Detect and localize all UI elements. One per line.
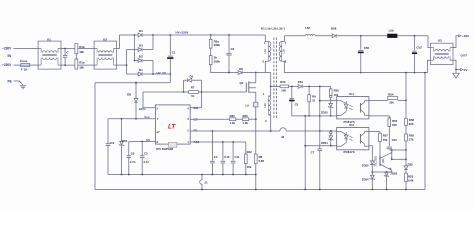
wire aux feed	[270, 86, 280, 88]
wire collector link	[391, 150, 393, 160]
IC5 pin number 4	[187, 107, 189, 110]
IC5 pin number 1	[187, 141, 189, 144]
IC5 pin number 8	[157, 141, 159, 144]
pin label ADJ	[194, 140, 200, 144]
svg-text:200k: 200k	[214, 60, 221, 64]
pin 1 primary	[264, 41, 266, 45]
diode D4	[135, 29, 154, 37]
diode D55	[404, 159, 413, 173]
svg-text:IN: IN	[8, 54, 12, 58]
wire HV_0V to C1	[153, 73, 171, 75]
svg-text:C10: C10	[224, 155, 230, 159]
wire aux bottom hook	[268, 115, 270, 131]
wire bottom rail	[95, 189, 425, 191]
svg-text:4.7n: 4.7n	[130, 160, 136, 164]
IC5 pin number 7	[157, 118, 159, 121]
net label HV+325V	[176, 31, 189, 35]
inductor L5 bead	[246, 102, 258, 107]
capacitor C1	[167, 34, 176, 83]
wire rail A	[108, 174, 255, 176]
wire source node down	[255, 119, 257, 154]
resistor R58	[405, 118, 415, 126]
wire secondary bottom hook	[282, 61, 285, 72]
svg-text:820: 820	[409, 122, 414, 126]
pin label GN	[194, 106, 198, 110]
wire fb bus vertical	[319, 86, 321, 190]
svg-text:~230V: ~230V	[2, 63, 12, 67]
svg-text:0.82: 0.82	[259, 159, 265, 163]
wire primary top hook	[265, 35, 268, 42]
capacitor C53	[387, 126, 397, 150]
svg-text:C5: C5	[144, 152, 148, 156]
wire Vcc row	[108, 118, 155, 120]
diode D56	[331, 26, 361, 37]
wire node to rowB	[405, 150, 407, 159]
resistor R6	[308, 86, 316, 116]
zener ZD54	[362, 172, 375, 190]
wire R58 R55	[405, 125, 407, 134]
wire IC2 right bottom	[369, 146, 372, 161]
svg-text:ZD4: ZD4	[122, 139, 128, 143]
svg-text:D1: D1	[139, 68, 143, 72]
svg-text:PC817A: PC817A	[344, 150, 356, 154]
resistor R42	[244, 142, 252, 175]
svg-text:C3: C3	[110, 141, 114, 145]
svg-text:GN: GN	[194, 106, 198, 110]
pin label CS	[194, 117, 198, 121]
svg-text:R50: R50	[280, 80, 286, 84]
svg-text:R1a: R1a	[79, 61, 85, 65]
wire right bus down	[424, 73, 426, 190]
svg-text:R32: R32	[230, 114, 236, 118]
wire CS mid	[236, 118, 243, 120]
IC5 pin number 5	[157, 107, 159, 110]
svg-text:ZD52: ZD52	[321, 111, 328, 115]
pin 4 aux	[265, 119, 267, 123]
svg-text:2SC2383: 2SC2383	[375, 155, 378, 166]
svg-text:100: 100	[281, 89, 286, 93]
svg-text:C56: C56	[364, 46, 370, 50]
optocoupler IC2	[337, 123, 369, 154]
capacitor C4	[210, 131, 218, 175]
wire AC1 vertical	[134, 34, 136, 61]
resistor R3a	[209, 34, 220, 48]
wire IC1 right bottom	[369, 116, 389, 118]
fuse F1	[20, 59, 29, 71]
pin label Vcc	[144, 115, 150, 119]
resistor R1a	[75, 54, 85, 70]
svg-text:C11: C11	[235, 155, 240, 159]
capacitor C3	[106, 119, 115, 175]
svg-text:D5: D5	[190, 74, 194, 78]
inductor L52	[305, 26, 332, 36]
svg-text:51: 51	[191, 94, 195, 98]
wire U3 bottom right to 0V	[453, 60, 461, 69]
jumper J1	[200, 174, 208, 191]
wire R3b to D6 row	[211, 65, 238, 73]
transformer K1 secondary winding L2b	[279, 42, 285, 62]
svg-text:+48V: +48V	[462, 34, 470, 38]
svg-text:1.2k: 1.2k	[243, 121, 249, 125]
resistor R1b	[75, 44, 85, 55]
wire U3 bottom left	[428, 60, 431, 72]
pin 7 secondary	[285, 41, 287, 45]
wire aux top hook	[268, 73, 270, 97]
wire 18Vv corner	[143, 92, 155, 108]
svg-text:Q51: Q51	[382, 158, 385, 163]
net label HV_0V	[157, 71, 167, 75]
IC5 pin number 3	[187, 118, 189, 121]
diode D61	[298, 80, 331, 89]
zener ZD52	[321, 95, 333, 117]
net label ~230V line 1	[2, 47, 12, 51]
svg-text:IC5 DAP008: IC5 DAP008	[156, 147, 173, 151]
svg-text:FB: FB	[194, 128, 198, 132]
svg-text:27k: 27k	[409, 138, 414, 142]
svg-text:4.7n: 4.7n	[143, 160, 149, 164]
transformer K1 primary winding L1b	[263, 42, 271, 62]
svg-text:IC2: IC2	[349, 123, 354, 127]
wire U2 bottom to bridge	[117, 50, 128, 75]
svg-text:D6: D6	[239, 67, 243, 71]
svg-text:U2: U2	[103, 37, 107, 41]
zener ZD51	[321, 131, 333, 146]
capacitor C7	[311, 149, 323, 155]
capacitor C56	[358, 35, 369, 74]
wire PE	[14, 81, 24, 85]
IC5 package tab	[169, 142, 177, 147]
svg-text:ZD51: ZD51	[321, 141, 328, 145]
svg-text:PE: PE	[8, 79, 12, 83]
ground PE earth	[20, 86, 26, 89]
svg-text:R54: R54	[388, 92, 394, 96]
node +48V terminal	[459, 34, 470, 38]
wire R50 to D61	[289, 86, 299, 88]
choke U3	[431, 39, 454, 65]
capacitor C5 opto	[289, 86, 299, 116]
wire left loop vertical	[94, 83, 96, 190]
capacitor C11	[231, 142, 240, 175]
svg-text:C2: C2	[231, 47, 235, 51]
svg-text:D61: D61	[298, 80, 304, 84]
wire bridge minus vertical	[152, 61, 154, 75]
svg-text:D4: D4	[139, 29, 143, 33]
wire L1 top	[14, 48, 39, 50]
wire D1 anode	[127, 73, 136, 75]
svg-text:U1: U1	[47, 37, 51, 41]
wire mid zener row	[372, 171, 392, 173]
capacitor C6	[127, 142, 136, 175]
svg-text:Fuse: Fuse	[20, 59, 27, 63]
svg-text:K1 L1b L2b L3b 1: K1 L1b L2b L3b 1	[261, 27, 285, 31]
wire Q4 source down	[255, 107, 257, 120]
wire FB row right	[286, 130, 337, 132]
wire ADJ row	[190, 141, 246, 143]
svg-text:C7: C7	[311, 150, 315, 154]
svg-text:L2b: L2b	[281, 49, 285, 54]
svg-text:~230V: ~230V	[2, 47, 12, 51]
svg-text:F 1A: F 1A	[21, 67, 28, 71]
resistor R53	[405, 173, 414, 190]
svg-text:L1b: L1b	[263, 49, 267, 54]
wire U3 top right to +48V	[453, 36, 459, 48]
wire L2 to fuse	[14, 64, 21, 66]
capacitor C2	[226, 34, 234, 73]
pin label FB	[194, 128, 198, 132]
node PE label	[8, 79, 12, 83]
diode D3	[136, 44, 153, 52]
wire GN pin route	[190, 92, 201, 108]
zener ZD55	[362, 161, 375, 173]
resistor R54	[388, 92, 407, 104]
capacitor C52	[412, 36, 422, 74]
svg-text:R7: R7	[191, 86, 195, 90]
net label IN	[8, 54, 12, 58]
svg-text:C6: C6	[131, 152, 135, 156]
svg-text:L52: L52	[305, 26, 310, 30]
net label OUT	[461, 53, 468, 57]
svg-text:D55: D55	[408, 163, 414, 167]
IC5 red LT logo	[168, 123, 176, 130]
wire IC1 right top	[369, 99, 388, 101]
svg-text:J2: J2	[281, 135, 285, 139]
zener ZD63	[384, 172, 398, 191]
diode D5	[184, 74, 202, 92]
svg-text:5.6k: 5.6k	[408, 178, 414, 182]
wire node row A	[389, 149, 407, 151]
resistor R8	[254, 154, 264, 175]
svg-text:C52: C52	[416, 45, 422, 49]
wire secondary bottom rail	[285, 72, 428, 74]
svg-text:51: 51	[312, 99, 316, 103]
svg-text:ZD54: ZD54	[362, 178, 369, 182]
resistor R32	[229, 114, 235, 125]
wire HV0V lower rail	[95, 82, 170, 84]
svg-text:10k: 10k	[79, 65, 84, 69]
svg-text:HV+325V: HV+325V	[176, 31, 189, 35]
diode D1	[136, 68, 153, 76]
transformer K1 aux winding L3b	[263, 96, 271, 115]
svg-text:10k: 10k	[247, 165, 252, 169]
wire secondary top rail	[285, 35, 306, 37]
wire row B emitter	[392, 158, 407, 160]
wire secondary top hook	[282, 36, 285, 42]
pin 1 aux	[263, 92, 265, 96]
svg-text:550: 550	[392, 123, 397, 127]
resistor R3b	[209, 48, 220, 65]
wire U3 top left	[428, 36, 431, 48]
resistor R55	[405, 134, 415, 142]
capacitor C10	[221, 142, 230, 175]
diode D8	[127, 82, 138, 120]
svg-text:ZD55: ZD55	[362, 163, 369, 167]
transformer K1 core	[274, 38, 277, 119]
net label ~230V line 2	[2, 63, 12, 67]
svg-text:OUT: OUT	[461, 53, 468, 57]
pin 5 primary	[263, 60, 265, 64]
wire opto1 left bottom row	[292, 115, 337, 117]
wire R55 to node	[405, 141, 407, 150]
wire R33 to source node	[249, 118, 256, 120]
resistor R56	[329, 86, 339, 96]
svg-text:IC1: IC1	[349, 92, 354, 96]
choke U1	[38, 37, 61, 69]
resistor R7	[183, 86, 203, 98]
diode D6	[238, 67, 255, 75]
svg-text:LT: LT	[168, 123, 176, 130]
net label 18Vv	[139, 107, 146, 111]
resistor R33	[242, 114, 248, 125]
IC5 pin number u7	[157, 131, 161, 134]
svg-text:D3: D3	[139, 44, 143, 48]
wire U1 to cap row bottom	[61, 64, 94, 66]
wire U1 to cap row top	[61, 48, 94, 50]
transformer K1 title	[261, 27, 285, 31]
IC5 name label	[156, 147, 173, 151]
svg-text:200: 200	[389, 100, 394, 104]
wire sense chain top	[405, 73, 407, 119]
ground output	[453, 69, 460, 78]
svg-text:R42: R42	[247, 150, 253, 154]
svg-text:18Vv: 18Vv	[139, 107, 146, 111]
wire HV row	[129, 141, 156, 143]
wire HV rail	[153, 34, 265, 36]
wire L5b to U3	[397, 35, 428, 37]
op-amp U1 region IC5 box	[155, 105, 190, 144]
wire gate rail	[143, 91, 246, 93]
svg-text:U3: U3	[438, 39, 442, 43]
wire U2 top to bridge	[117, 35, 135, 49]
transistor Q51	[375, 150, 392, 172]
wire fuse to U1	[30, 64, 38, 66]
svg-text:Q4: Q4	[240, 81, 244, 85]
pin 8 secondary	[285, 60, 287, 64]
transistor Q4	[240, 73, 256, 103]
zener ZD4	[119, 119, 128, 175]
IC5 pin number 2	[187, 129, 189, 132]
wire IC2 right top	[369, 131, 380, 133]
node 0V terminal	[461, 68, 469, 72]
jumper J2	[280, 128, 286, 139]
svg-text:L5: L5	[246, 103, 250, 107]
svg-text:C5: C5	[295, 103, 299, 107]
svg-text:R1b: R1b	[79, 45, 85, 49]
wire IC2 left bottom	[304, 145, 336, 147]
wire bridge plus vertical	[152, 34, 154, 49]
wire opto1 left top	[320, 100, 337, 102]
svg-text:J1: J1	[204, 180, 208, 184]
wire primary bottom hook	[265, 61, 268, 72]
svg-text:R33: R33	[243, 114, 249, 118]
svg-text:200k: 200k	[214, 43, 221, 47]
svg-text:L5b: L5b	[389, 29, 394, 33]
choke U2	[94, 37, 116, 69]
wire FB row	[190, 130, 280, 132]
inductor L5b	[387, 29, 397, 38]
svg-text:L3b: L3b	[263, 103, 267, 108]
wire railA to railB drop	[255, 174, 257, 191]
svg-text:ZD63: ZD63	[390, 172, 397, 176]
svg-text:C53: C53	[392, 138, 398, 142]
capacitor C5	[140, 142, 149, 175]
svg-text:C1: C1	[172, 50, 176, 54]
wire D3 anode	[127, 49, 136, 51]
optocoupler IC1	[337, 92, 369, 124]
resistor R50	[280, 80, 288, 92]
wire CS row	[190, 118, 229, 120]
resistor R57	[379, 132, 389, 157]
pin label HV	[146, 138, 150, 142]
wire to L5b	[361, 35, 387, 37]
resistor R52	[388, 118, 398, 127]
svg-text:C4: C4	[214, 155, 218, 159]
svg-text:750: 750	[383, 138, 388, 142]
wire drain node	[255, 72, 271, 74]
svg-text:D56: D56	[331, 26, 337, 30]
capacitor C (X-cap)	[63, 48, 70, 66]
svg-text:D2: D2	[139, 55, 143, 59]
diode D2	[135, 55, 154, 63]
svg-text:1.2k: 1.2k	[230, 121, 236, 125]
wire left fb drop	[304, 116, 306, 191]
svg-text:D8: D8	[127, 93, 131, 97]
svg-text:10k: 10k	[79, 50, 84, 54]
